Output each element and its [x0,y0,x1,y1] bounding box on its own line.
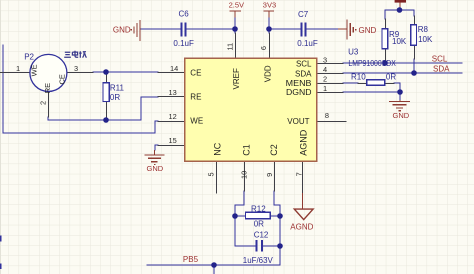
svg-text:5: 5 [206,172,215,176]
svg-text:15: 15 [169,136,177,145]
svg-text:3: 3 [74,64,78,73]
svg-text:GND: GND [113,25,131,34]
svg-text:RE: RE [190,93,201,102]
svg-text:R8: R8 [418,25,429,34]
svg-text:1: 1 [323,84,327,93]
svg-text:4: 4 [323,65,327,74]
svg-text:2: 2 [323,74,327,83]
svg-text:13: 13 [169,88,177,97]
svg-text:R11: R11 [110,84,125,93]
svg-text:14: 14 [170,64,178,73]
svg-text:0R: 0R [254,219,264,228]
svg-text:WE: WE [29,64,38,76]
svg-text:2.5V: 2.5V [229,1,244,10]
svg-text:8: 8 [325,111,329,120]
svg-text:12: 12 [169,112,177,121]
svg-text:PB5: PB5 [183,255,199,264]
svg-text:11: 11 [226,43,235,51]
svg-text:CE: CE [190,68,201,77]
svg-text:0.1uF: 0.1uF [297,39,318,48]
svg-text:R10: R10 [351,73,366,82]
svg-text:3: 3 [323,55,327,64]
svg-text:SCL: SCL [432,55,448,64]
svg-text:6: 6 [259,46,268,50]
svg-text:AGND: AGND [290,222,313,231]
svg-text:C6: C6 [179,9,190,18]
svg-text:LMP91000SDX: LMP91000SDX [348,59,396,68]
svg-text:10K: 10K [418,35,433,44]
svg-text:U3: U3 [348,47,359,56]
svg-text:2: 2 [39,101,48,105]
svg-text:SDA: SDA [295,70,312,79]
svg-text:3V3: 3V3 [263,1,276,10]
svg-text:10: 10 [240,171,249,179]
svg-text:WE: WE [190,117,203,126]
svg-text:GND: GND [393,111,410,120]
svg-text:C1: C1 [242,144,252,156]
svg-text:CE: CE [57,74,66,84]
svg-text:C2: C2 [269,144,279,156]
svg-text:DGND: DGND [286,88,312,97]
svg-text:C7: C7 [298,10,309,19]
svg-text:9: 9 [265,173,274,177]
svg-text:VOUT: VOUT [287,117,309,126]
svg-text:SCL: SCL [296,60,312,69]
svg-text:10K: 10K [392,37,407,46]
svg-text:RE: RE [43,83,52,93]
svg-text:AGND: AGND [299,129,309,156]
svg-text:0R: 0R [110,93,120,102]
svg-text:GND: GND [359,26,377,35]
svg-text:SDA: SDA [433,65,450,74]
svg-text:VDD: VDD [263,65,272,82]
svg-text:NC: NC [213,142,223,155]
svg-text:7: 7 [295,172,304,176]
svg-text:C12: C12 [254,230,269,239]
svg-text:0R: 0R [386,72,396,81]
svg-text:VREF: VREF [232,68,241,89]
svg-text:0.1uF: 0.1uF [173,39,194,48]
svg-text:1: 1 [16,64,20,73]
svg-text:P2: P2 [24,53,34,62]
svg-text:R12: R12 [251,204,266,213]
svg-text:GND: GND [147,164,164,173]
svg-text:1uF/63V: 1uF/63V [243,256,274,265]
svg-text:MENB: MENB [286,79,312,88]
